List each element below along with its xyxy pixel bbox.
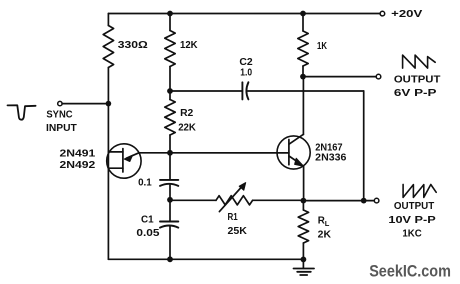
transistor Q1 2N491/2N492 <box>107 144 141 178</box>
svg-text:6V P-P: 6V P-P <box>394 88 437 99</box>
svg-text:0.1: 0.1 <box>138 178 152 189</box>
sawtooth waveform icon 10V output <box>403 184 436 197</box>
node top-1K <box>300 11 306 17</box>
svg-text:SeekIC.com: SeekIC.com <box>369 262 451 281</box>
svg-text:SYNC: SYNC <box>46 109 72 120</box>
svg-text:R2: R2 <box>180 108 194 119</box>
svg-text:INPUT: INPUT <box>46 123 77 134</box>
svg-text:2K: 2K <box>318 230 331 241</box>
resistor RL 2K <box>298 201 308 260</box>
sync pulse waveform icon <box>8 105 36 119</box>
node emitter-R1-RL-10V <box>301 198 307 204</box>
node top-12K <box>167 11 173 17</box>
node sync <box>106 101 112 107</box>
wire 10V output <box>303 200 374 202</box>
svg-text:2N491: 2N491 <box>60 148 96 159</box>
node 12K-R2-C2 <box>167 88 173 94</box>
svg-text:RL: RL <box>318 216 330 228</box>
svg-text:12K: 12K <box>180 40 198 51</box>
node C2-10V <box>361 198 367 204</box>
resistor 12K <box>165 14 175 92</box>
terminal 6V output <box>376 74 381 79</box>
node R2-emitter-base <box>167 150 173 156</box>
wire sync input <box>62 103 108 105</box>
resistor 330&#937; <box>103 26 113 68</box>
svg-text:1K: 1K <box>317 41 327 52</box>
svg-text:0.05: 0.05 <box>136 228 160 239</box>
wire Q2 emitter <box>303 166 305 201</box>
capacitor C2 1.0 <box>170 82 364 99</box>
node RL-ground <box>301 257 307 263</box>
wire Q1 emitter / Q2 base row <box>139 152 289 154</box>
node bottom-C1 <box>167 256 173 262</box>
wire bottom rail <box>108 258 303 260</box>
svg-text:22K: 22K <box>178 123 196 134</box>
svg-text:OUTPUT: OUTPUT <box>394 75 441 86</box>
ground <box>294 260 315 276</box>
svg-text:C2: C2 <box>239 57 253 68</box>
svg-text:R1: R1 <box>228 212 239 223</box>
resistor R2 22K <box>165 91 175 153</box>
svg-text:1KC: 1KC <box>402 228 421 239</box>
potentiometer R1 25K <box>170 183 303 212</box>
node 1K-collector-6V <box>300 74 306 80</box>
wire C2 to output node <box>363 91 365 201</box>
svg-text:2N336: 2N336 <box>315 152 347 163</box>
svg-text:+20V: +20V <box>391 9 423 20</box>
terminal +20V <box>380 11 385 16</box>
wire top rail <box>108 13 380 15</box>
svg-text:C1: C1 <box>141 215 154 226</box>
resistor 1K <box>298 14 308 77</box>
capacitor 0.1 <box>160 153 178 200</box>
terminal 10V output <box>374 198 379 203</box>
svg-text:2N492: 2N492 <box>60 160 96 171</box>
wire 6V output <box>303 76 376 78</box>
terminal SYNC INPUT <box>58 101 62 105</box>
node 0.1-C1-R1 <box>167 197 173 203</box>
svg-text:1.0: 1.0 <box>240 68 252 79</box>
svg-text:OUTPUT: OUTPUT <box>394 201 434 212</box>
svg-text:330Ω: 330Ω <box>118 40 148 51</box>
wire Q2 collector <box>302 77 304 135</box>
capacitor C1 0.05 <box>160 200 178 259</box>
transistor Q2 2N167/2N336 <box>277 134 310 169</box>
wire left vertical (B2 side) <box>107 14 109 260</box>
sawtooth waveform icon 6V output <box>403 55 436 68</box>
svg-text:10V P-P: 10V P-P <box>388 215 436 226</box>
svg-text:25K: 25K <box>228 226 247 237</box>
